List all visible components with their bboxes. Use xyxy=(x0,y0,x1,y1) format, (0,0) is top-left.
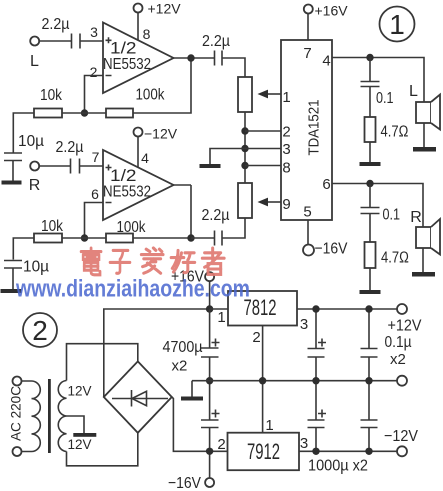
node pin6 xyxy=(366,180,373,187)
ground speaker L xyxy=(413,147,436,152)
svg-text:−12V: −12V xyxy=(384,428,418,445)
capacitor 4700u lower xyxy=(201,420,219,428)
wire RP1 bottom to gnd chain xyxy=(244,112,246,183)
wire rail1 left xyxy=(13,113,34,153)
regulator 7912 xyxy=(228,433,300,471)
capacitor 1000u lower xyxy=(308,420,325,428)
ground center tap xyxy=(73,433,96,437)
input terminal R xyxy=(30,162,39,171)
ground mid rail xyxy=(181,397,203,401)
node chain pin2 xyxy=(241,127,248,134)
wire RP2 wiper arrow from pin9 xyxy=(267,201,281,203)
resistor 4.7ohm R xyxy=(365,242,376,268)
svg-text:x2: x2 xyxy=(172,358,188,375)
svg-text:1: 1 xyxy=(265,417,273,434)
svg-text:1: 1 xyxy=(282,89,290,106)
svg-text:x2: x2 xyxy=(390,351,406,368)
svg-text:2.2µ: 2.2µ xyxy=(202,33,230,50)
svg-text:7: 7 xyxy=(303,45,311,62)
potentiometer RP2 xyxy=(238,183,252,218)
wire rail2 left xyxy=(13,238,34,260)
resistor R4 100k xyxy=(106,234,133,243)
resistor 4.7ohm L xyxy=(365,117,376,142)
char ai xyxy=(141,248,163,273)
ground under C2 xyxy=(2,181,22,185)
wire C3 to pot RP1 xyxy=(223,58,246,77)
svg-text:2: 2 xyxy=(252,329,260,346)
svg-text:0.1µ: 0.1µ xyxy=(385,334,412,351)
svg-text:1/2: 1/2 xyxy=(110,39,137,58)
ground zobel L xyxy=(360,162,381,166)
wire bridge - output to -16V rail xyxy=(172,397,210,451)
wire 7912 pin2 to -16V node xyxy=(210,450,228,452)
wire +16V terminal to node xyxy=(209,281,211,309)
resistor R2 100k xyxy=(106,109,133,118)
nodes column D xyxy=(365,305,372,312)
svg-text:12V: 12V xyxy=(68,384,92,399)
svg-text:4: 4 xyxy=(141,150,149,166)
wire C4 to op-amp pin7 xyxy=(80,165,103,167)
wire R3 to fb node xyxy=(62,237,106,239)
nodes column C xyxy=(312,305,319,312)
wire 7812 pin2 down xyxy=(262,326,264,433)
marker circled 2 xyxy=(23,313,57,347)
svg-text:2: 2 xyxy=(217,436,225,453)
terminal 0V out xyxy=(397,376,407,386)
transformer T1 primary terminal bottom xyxy=(13,447,22,456)
capacitor 0.1 zobel L xyxy=(361,58,380,118)
char zi xyxy=(110,250,130,273)
svg-text:8: 8 xyxy=(282,160,290,177)
op-amp U1A 1/2 NE5532 xyxy=(103,23,174,94)
svg-text:1000µ x2: 1000µ x2 xyxy=(308,458,368,475)
node op2 out xyxy=(187,234,194,241)
wire L input to C1 xyxy=(39,40,71,42)
node 7812 pin2 on rail xyxy=(259,377,266,384)
wire zobel L to gnd xyxy=(369,142,371,162)
wire TDA pin6 out xyxy=(332,184,423,228)
char zhe xyxy=(202,248,224,274)
wire rail to ground xyxy=(191,381,193,397)
svg-text:+12V: +12V xyxy=(388,318,422,335)
input terminal L xyxy=(30,37,39,46)
svg-text:10k: 10k xyxy=(41,218,64,235)
wire speaker L to gnd xyxy=(423,123,425,147)
svg-text:2: 2 xyxy=(90,64,98,80)
wire pin6 to feedback node xyxy=(85,203,104,239)
op-amp U1B 1/2 NE5532 xyxy=(103,150,174,220)
bridge rectifier xyxy=(104,361,172,432)
node cap A mid xyxy=(206,377,213,384)
svg-text:2.2µ: 2.2µ xyxy=(202,207,230,224)
wire speaker R to gnd xyxy=(422,248,424,272)
wire column A caps xyxy=(209,309,211,478)
node fb2 xyxy=(81,234,88,241)
terminal -16V supply xyxy=(205,478,214,487)
wire R4 to output xyxy=(133,185,191,238)
capacitor 1000u upper xyxy=(308,349,325,358)
svg-text:NE5532: NE5532 xyxy=(103,56,151,73)
svg-text:8: 8 xyxy=(143,26,151,42)
wire TDA pin7 stub xyxy=(307,14,309,41)
terminal +12V xyxy=(134,4,143,13)
svg-text:10k: 10k xyxy=(40,87,63,104)
transformer T1 primary winding xyxy=(32,381,41,452)
ground at TDA input xyxy=(200,164,221,168)
wire R1 to fb node xyxy=(62,112,106,114)
svg-text:0.1: 0.1 xyxy=(383,207,401,224)
node fb1 xyxy=(81,109,88,116)
wire R input to C4 xyxy=(39,165,70,167)
node op1 out xyxy=(187,54,194,61)
svg-text:2.2µ: 2.2µ xyxy=(56,139,84,156)
resistor R3 10k xyxy=(34,234,62,243)
terminal -16V TDA xyxy=(303,245,314,256)
capacitor 4700u upper xyxy=(201,348,219,357)
capacitor C5 10u xyxy=(4,261,22,290)
wire bridge + output up to +16V node xyxy=(104,309,210,397)
node chain pin3 xyxy=(241,145,248,152)
svg-text:+12V: +12V xyxy=(148,1,182,17)
svg-text:L: L xyxy=(409,83,418,100)
svg-text:2: 2 xyxy=(282,124,290,141)
svg-text:NE5532: NE5532 xyxy=(103,184,151,201)
capacitor 0.1u upper xyxy=(361,349,378,358)
wire pin8 power stub xyxy=(137,13,139,41)
wire RP1 wiper arrow from pin1 xyxy=(267,93,281,95)
wire gnd stub from pin3 chain xyxy=(210,149,245,165)
resistor R1 10k xyxy=(34,109,62,118)
wire column D caps xyxy=(368,309,370,451)
wire op2 output xyxy=(174,184,192,186)
terminal +16V supply xyxy=(205,272,214,281)
wire R2 to output xyxy=(133,58,191,113)
wire secondary center tap xyxy=(67,416,85,433)
svg-text:7: 7 xyxy=(92,149,100,165)
svg-text:4.7Ω: 4.7Ω xyxy=(381,124,409,141)
svg-text:100k: 100k xyxy=(117,219,147,236)
wire pin2 to feedback node xyxy=(85,76,104,114)
svg-text:4.7Ω: 4.7Ω xyxy=(381,250,409,267)
wire chain to TDA pin8 xyxy=(245,165,281,167)
svg-text:3: 3 xyxy=(282,141,290,158)
node chain pin8 xyxy=(241,162,248,169)
wire primary leads xyxy=(22,381,32,452)
wire zobel R to gnd xyxy=(369,268,371,290)
wire chain to TDA pin2 xyxy=(245,130,281,132)
svg-text:4700µ: 4700µ xyxy=(163,339,203,356)
IC TDA1521 xyxy=(281,40,332,220)
wire secondary top to bridge xyxy=(67,344,138,381)
node cap A bottom xyxy=(206,448,213,455)
terminal -12V out xyxy=(397,446,407,456)
wire secondary bottom to bridge xyxy=(67,433,138,466)
potentiometer RP1 xyxy=(238,77,252,112)
capacitor C4 2.2u xyxy=(71,159,80,174)
svg-text:5: 5 xyxy=(303,204,311,221)
wire chain to TDA pin3 xyxy=(245,148,281,150)
svg-text:2.2µ: 2.2µ xyxy=(42,16,70,33)
wire out node to C6 xyxy=(191,237,214,239)
svg-text:−12V: −12V xyxy=(144,126,178,142)
transformer T1 secondary winding xyxy=(58,381,66,452)
ground under C5 xyxy=(1,289,22,293)
svg-text:3: 3 xyxy=(300,435,308,452)
terminal +12V out xyxy=(397,304,407,314)
wire op1 output xyxy=(174,57,215,59)
terminal +16V top xyxy=(304,5,313,14)
diode inside bridge xyxy=(112,390,168,407)
svg-text:10µ: 10µ xyxy=(23,259,49,276)
capacitor C2 10u xyxy=(4,153,22,181)
svg-text:1/2: 1/2 xyxy=(110,166,137,185)
svg-text:3: 3 xyxy=(90,24,98,40)
wire TDA pin5 stub xyxy=(307,220,309,246)
svg-text:3: 3 xyxy=(300,316,308,333)
ground speaker R xyxy=(412,272,435,277)
mid rail 0V xyxy=(192,380,397,382)
svg-text:1: 1 xyxy=(217,309,225,326)
svg-text:−16V: −16V xyxy=(315,241,348,258)
svg-text:−16V: −16V xyxy=(168,475,201,491)
wire column C caps xyxy=(315,309,317,451)
capacitor C3 2.2u xyxy=(215,51,223,66)
svg-text:TDA1521: TDA1521 xyxy=(306,100,323,156)
marker circled 1 xyxy=(380,7,415,42)
svg-text:12V: 12V xyxy=(68,437,92,452)
svg-text:2: 2 xyxy=(32,315,48,346)
svg-text:L: L xyxy=(30,53,39,70)
svg-text:R: R xyxy=(29,177,41,194)
wire 7912 pin3 to -12V rail xyxy=(299,450,397,452)
wire pin4 power stub xyxy=(137,137,139,168)
svg-text:10µ: 10µ xyxy=(18,133,44,150)
regulator 7812 xyxy=(228,291,297,326)
capacitor C6 2.2u xyxy=(215,231,223,246)
wire C6 to pot RP2 xyxy=(223,218,246,238)
transformer T1 core xyxy=(48,379,51,453)
svg-text:6: 6 xyxy=(91,186,99,202)
svg-text:4: 4 xyxy=(322,53,330,70)
svg-text:1: 1 xyxy=(389,9,405,40)
capacitor 0.1u lower xyxy=(361,420,378,428)
svg-text:9: 9 xyxy=(282,196,290,213)
watermark red text (vector strokes, CJK not available) xyxy=(81,248,224,275)
capacitor 0.1 zobel R xyxy=(361,184,380,243)
svg-text:100k: 100k xyxy=(136,87,166,104)
svg-text:R: R xyxy=(410,209,422,226)
wire node to 7812 pin1 xyxy=(210,308,228,310)
char dian xyxy=(81,248,101,275)
svg-text:+16V: +16V xyxy=(315,3,349,19)
char hao xyxy=(171,250,195,272)
svg-text:www.dianziaihaozhe.com: www.dianziaihaozhe.com xyxy=(15,276,250,303)
node +16V xyxy=(206,305,213,312)
transformer T1 primary terminal top xyxy=(13,377,22,386)
ground zobel R xyxy=(360,290,381,294)
svg-text:0.1: 0.1 xyxy=(376,90,394,107)
capacitor C1 2.2u xyxy=(72,34,81,49)
terminal -12V xyxy=(134,128,143,137)
node pin4 xyxy=(366,54,373,61)
svg-text:7912: 7912 xyxy=(247,439,280,464)
wire C1 to op-amp pin3 xyxy=(81,40,104,42)
svg-text:AC 220C: AC 220C xyxy=(8,386,24,441)
svg-text:6: 6 xyxy=(322,176,330,193)
wire TDA pin4 out xyxy=(332,58,424,103)
wire 7812 pin3 to +12V rail xyxy=(297,308,397,310)
